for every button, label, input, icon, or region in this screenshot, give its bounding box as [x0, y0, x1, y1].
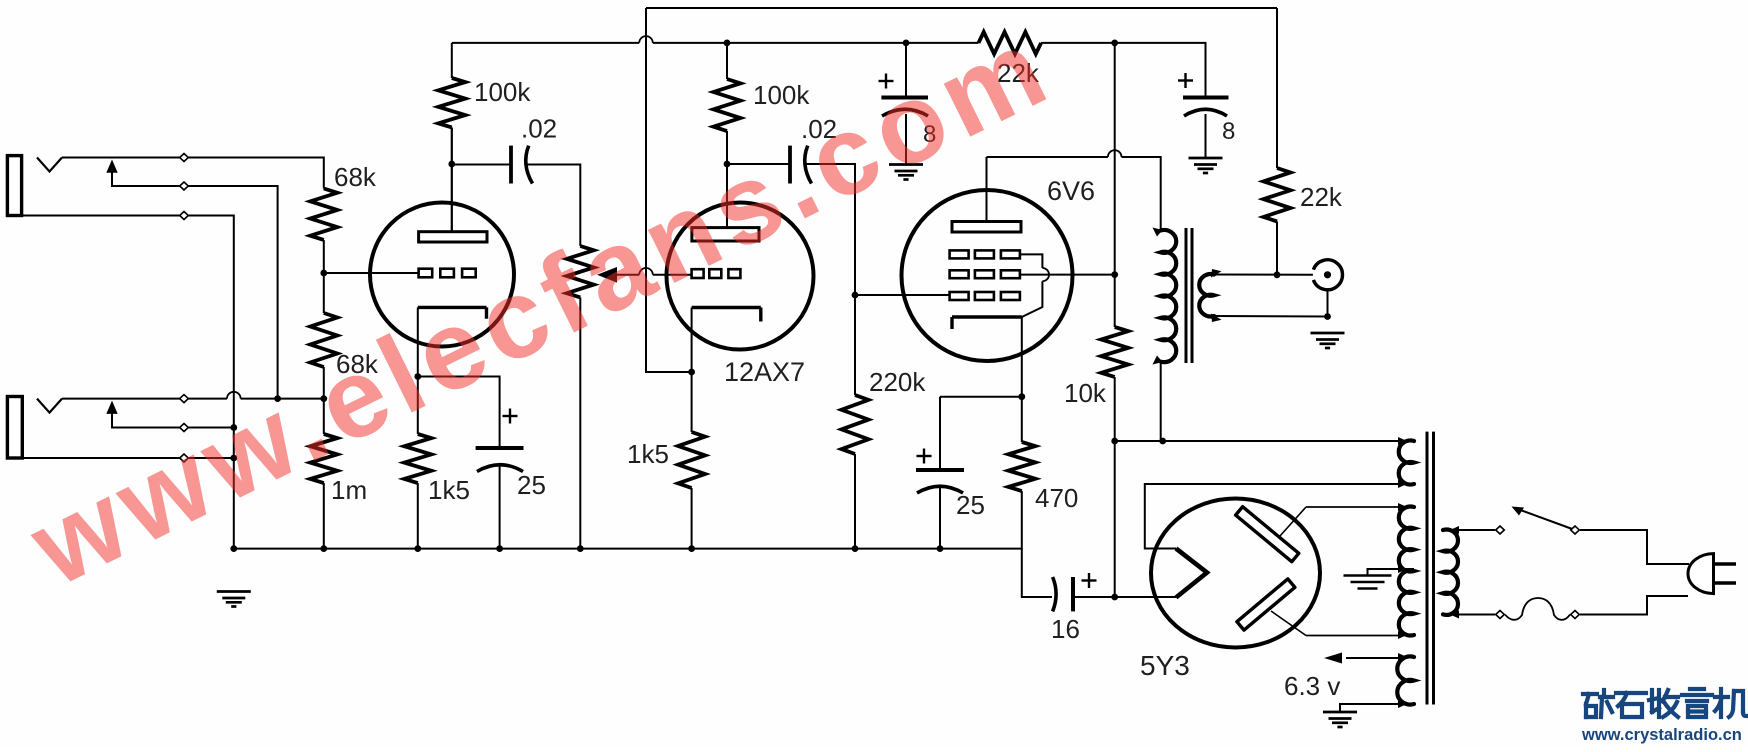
svg-text:470: 470	[1035, 483, 1078, 513]
svg-text:68k: 68k	[334, 162, 377, 192]
svg-text:www.crystalradio.cn: www.crystalradio.cn	[1581, 726, 1742, 744]
svg-text:12AX7: 12AX7	[724, 357, 805, 387]
svg-text:5Y3: 5Y3	[1140, 650, 1190, 681]
svg-text:1m: 1m	[331, 475, 367, 505]
svg-text:25: 25	[517, 470, 546, 500]
svg-text:25: 25	[956, 490, 985, 520]
svg-text:16: 16	[1051, 614, 1080, 644]
svg-text:8: 8	[1222, 118, 1235, 145]
svg-text:1k5: 1k5	[428, 475, 470, 505]
svg-text:1k5: 1k5	[627, 439, 669, 469]
svg-text:10k: 10k	[1064, 378, 1107, 408]
svg-text:22k: 22k	[1300, 182, 1343, 212]
svg-text:100k: 100k	[753, 80, 810, 110]
svg-text:100k: 100k	[474, 77, 531, 107]
svg-text:6V6: 6V6	[1047, 176, 1095, 206]
svg-text:.02: .02	[521, 114, 557, 144]
svg-text:6.3 v: 6.3 v	[1284, 671, 1340, 701]
svg-text:220k: 220k	[869, 367, 926, 397]
